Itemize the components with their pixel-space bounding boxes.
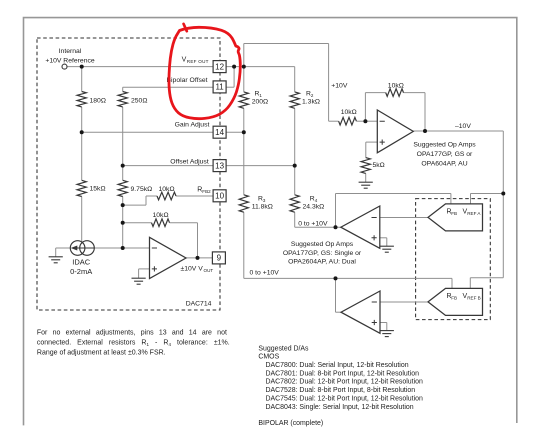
- svg-text:FB: FB: [451, 296, 457, 301]
- node VOUT junction: [196, 256, 200, 260]
- pin 14: [213, 126, 226, 138]
- svg-text:24.3kΩ: 24.3kΩ: [303, 204, 325, 211]
- node -10V/VREFA junction: [501, 192, 505, 196]
- wire feedback 10k to output: [123, 222, 152, 224]
- wire 0 to +10V line: [244, 277, 452, 279]
- svg-text:9.75kΩ: 9.75kΩ: [131, 186, 153, 193]
- node offset adjust/250ohm junction: [121, 164, 125, 168]
- wire offset adjust line: [123, 165, 214, 167]
- pin 10: [213, 190, 226, 202]
- wire R4 to op-amp A output node: [295, 226, 341, 228]
- wire op-amp A minus input: [380, 217, 428, 219]
- wire IDAC ground stub: [55, 248, 57, 257]
- op-amp B: [341, 291, 380, 333]
- red hand-drawn circle annotation: [169, 27, 240, 118]
- svg-text:11: 11: [215, 83, 224, 92]
- svg-text:Suggested Op Amps: Suggested Op Amps: [413, 141, 476, 148]
- wire R2 R4 column: [294, 67, 296, 92]
- svg-text:11.8kΩ: 11.8kΩ: [252, 204, 273, 211]
- wire op-amp U1 feedback: [364, 93, 366, 122]
- svg-text:DAC714: DAC714: [186, 300, 212, 307]
- wire RFB A line: [336, 193, 451, 195]
- svg-text:DAC7545: Dual: 12-bit Port Inp: DAC7545: Dual: 12-bit Port Input, 12-bit…: [266, 395, 423, 402]
- pin 11: [213, 81, 226, 93]
- resistor 9.75k: [118, 180, 127, 196]
- svg-text:0 to +10V: 0 to +10V: [250, 269, 280, 276]
- node 0to+10V/RFB B junction: [334, 276, 338, 280]
- pin 12: [213, 61, 226, 73]
- svg-text:13: 13: [215, 161, 224, 170]
- svg-text:Internal: Internal: [59, 48, 82, 55]
- resistor R1 200: [239, 92, 248, 108]
- svg-text:10: 10: [215, 192, 224, 201]
- svg-text:CMOS: CMOS: [258, 354, 279, 361]
- op-amp A: [341, 206, 380, 248]
- resistor 250ohm: [118, 92, 127, 107]
- node reference/180ohm junction: [80, 65, 84, 69]
- pin 13: [213, 160, 226, 172]
- svg-text:10kΩ: 10kΩ: [341, 109, 357, 116]
- wire IDAC to inverting input: [94, 247, 123, 249]
- resistor R3 11.8k: [239, 195, 248, 212]
- svg-text:OUT: OUT: [204, 268, 214, 273]
- svg-text:Suggested Op Amps: Suggested Op Amps: [291, 241, 354, 248]
- ground op-amp U2 plus: [132, 278, 146, 284]
- svg-text:15kΩ: 15kΩ: [90, 186, 106, 193]
- ground IDAC: [49, 257, 63, 263]
- resistor 10k RFB2: [157, 192, 176, 200]
- wire +10V input chain: [329, 120, 339, 122]
- svg-text:Range of adjustment at least ±: Range of adjustment at least ±0.3% FSR.: [37, 349, 166, 356]
- resistor R2 1.3k: [290, 92, 299, 108]
- ground op-amp B plus: [380, 331, 394, 337]
- resistor R4 24.3k: [290, 195, 299, 212]
- svg-text:REF OUT: REF OUT: [187, 59, 209, 64]
- wire pin 11 riser to pin 12 node: [226, 86, 234, 88]
- wire 250ohm top to pin 11: [123, 86, 214, 88]
- wire VREF A line: [471, 193, 504, 195]
- wire pin 12 to R2 top: [226, 66, 295, 68]
- svg-text:Offset Adjust: Offset Adjust: [170, 159, 209, 166]
- node U1 inverting input junction: [363, 119, 367, 123]
- wire gain adjust line: [82, 131, 214, 133]
- ground op-amp A plus: [380, 246, 394, 252]
- node offset adjust/R2 junction: [293, 164, 297, 168]
- svg-text:DAC7528: Dual: 8-bit Port Inpu: DAC7528: Dual: 8-bit Port Input, 8-bit R…: [266, 387, 416, 394]
- svg-text:OPA2604AP, AU: Dual: OPA2604AP, AU: Dual: [288, 258, 356, 265]
- svg-text:connected. External resistors: connected. External resistors R1 - R4 to…: [37, 340, 230, 348]
- svg-text:200Ω: 200Ω: [252, 98, 268, 105]
- wire 180ohm branch: [81, 67, 83, 92]
- terminal circle internal reference: [62, 64, 67, 69]
- node pin 11 riser junction: [232, 65, 236, 69]
- node U1 output junction: [423, 129, 427, 133]
- wire op-amp output to pin 9: [186, 257, 213, 259]
- svg-text:±10V V: ±10V V: [181, 265, 204, 272]
- node feedback branch junction: [121, 221, 125, 225]
- wire op-amp plus input to ground: [139, 268, 150, 270]
- svg-text:1.3kΩ: 1.3kΩ: [302, 98, 320, 105]
- node IDAC summing junction: [121, 246, 125, 250]
- wire R1 R3 column: [243, 67, 245, 92]
- svg-text:9: 9: [217, 254, 222, 263]
- DAC block A RFB VREFA: [428, 204, 483, 231]
- DAC714 dashed boundary box: [37, 38, 220, 310]
- svg-text:DAC7801: Dual: 8-bit Port Inpu: DAC7801: Dual: 8-bit Port Input, 12-bit …: [266, 370, 420, 377]
- svg-text:BIPOLAR (complete): BIPOLAR (complete): [258, 420, 323, 427]
- svg-text:DAC8043: Single: Serial Input,: DAC8043: Single: Serial Input, 12-bit Re…: [266, 404, 414, 411]
- resistor 10k feedback: [152, 219, 170, 227]
- resistor 15k: [77, 180, 86, 196]
- svg-text:Suggested D/As: Suggested D/As: [258, 345, 309, 352]
- svg-text:0-2mA: 0-2mA: [70, 267, 92, 276]
- svg-text:Gain Adjust: Gain Adjust: [175, 121, 210, 128]
- wire VREF B to -10V column: [470, 277, 503, 279]
- wire op-amp B plus to ground: [380, 322, 387, 324]
- svg-text:180Ω: 180Ω: [90, 97, 106, 104]
- svg-text:10kΩ: 10kΩ: [159, 186, 175, 193]
- svg-text:OPA604AP, AU: OPA604AP, AU: [421, 161, 467, 168]
- node gain adjust/R1 junction: [242, 130, 246, 134]
- svg-text:+10V: +10V: [331, 83, 348, 90]
- wire vref node up and over to +10V column: [243, 44, 245, 67]
- svg-text:For no external adjustments, p: For no external adjustments, pins 13 and…: [37, 329, 227, 336]
- node RFB2 branch junction: [121, 203, 125, 207]
- svg-text:IDAC: IDAC: [72, 257, 91, 266]
- svg-text:10kΩ: 10kΩ: [153, 212, 169, 219]
- svg-text:250Ω: 250Ω: [131, 97, 147, 104]
- pin 9: [212, 252, 225, 264]
- svg-text:+10V Reference: +10V Reference: [45, 57, 95, 64]
- wire 5k to ground stub: [365, 173, 367, 182]
- resistor 10k U1 feedback: [386, 89, 404, 97]
- wire op-amp A plus to ground: [380, 237, 387, 239]
- op-amp U1 OPA177: [377, 110, 413, 153]
- resistor 5k: [361, 158, 370, 174]
- svg-text:Bipolar Offset: Bipolar Offset: [167, 77, 208, 84]
- wire -10V output: [413, 130, 503, 132]
- ground 5k: [359, 182, 373, 188]
- svg-text:5kΩ: 5kΩ: [373, 162, 385, 169]
- wire op-amp A feedback riser: [335, 194, 337, 228]
- svg-text:12: 12: [215, 62, 224, 71]
- svg-text:–10V: –10V: [455, 123, 471, 130]
- svg-text:DAC7800: Dual: Serial Input, 1: DAC7800: Dual: Serial Input, 12-bit Reso…: [266, 362, 409, 369]
- svg-text:REF B: REF B: [467, 296, 481, 301]
- current source IDAC: [70, 241, 85, 256]
- node gain adjust/180ohm junction: [80, 130, 84, 134]
- resistor 10k U1 input: [339, 117, 357, 125]
- wire op-amp B output riser: [335, 278, 337, 312]
- op-amp U2 DAC output: [150, 237, 187, 278]
- svg-text:DAC7802: Dual: 12-bit Port Inp: DAC7802: Dual: 12-bit Port Input, 12-bit…: [266, 379, 423, 386]
- wire 250ohm branch: [122, 87, 124, 91]
- svg-text:OPA177GP, GS: Single or: OPA177GP, GS: Single or: [283, 250, 362, 257]
- wire internal reference to pin 12: [67, 66, 213, 68]
- svg-text:0 to +10V: 0 to +10V: [298, 220, 328, 227]
- wire RFB2 step: [123, 204, 146, 206]
- DAC block B RFB VREFB: [428, 288, 483, 315]
- node VREF/R1 junction: [242, 65, 246, 69]
- wire op-amp B minus input: [380, 301, 428, 303]
- resistor 180ohm: [77, 92, 86, 107]
- svg-text:10kΩ: 10kΩ: [388, 83, 404, 90]
- svg-text:14: 14: [215, 128, 224, 137]
- svg-text:REF A: REF A: [467, 211, 481, 216]
- svg-text:FB: FB: [451, 211, 457, 216]
- node op-amp A output junction: [334, 225, 338, 229]
- svg-text:OPA177GP, GS or: OPA177GP, GS or: [417, 151, 473, 158]
- dashed box around RFB/VREF blocks: [416, 199, 491, 320]
- wire op-amp U1 plus input: [366, 141, 378, 143]
- svg-text:FB2: FB2: [202, 189, 211, 194]
